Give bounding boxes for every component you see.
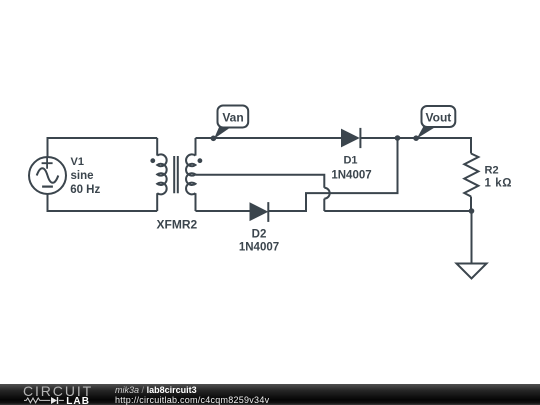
junction node Vout wire dot bbox=[395, 135, 401, 141]
junction node R2 bottom dot bbox=[469, 208, 475, 214]
wire hop over D2 output bbox=[324, 188, 329, 199]
center tap wire with hop bbox=[196, 175, 325, 188]
footer text url bbox=[115, 395, 269, 405]
label V1 name/value bbox=[70, 156, 100, 196]
node flag Vout bbox=[417, 106, 456, 139]
wire D1 cathode to R2 top corner bbox=[360, 138, 471, 154]
CircuitLab logo bbox=[0, 384, 110, 405]
svg-text:XFMR2: XFMR2 bbox=[157, 218, 198, 232]
wire D2 cathode to Vout node bbox=[268, 138, 397, 211]
svg-text:1 kΩ: 1 kΩ bbox=[485, 178, 513, 190]
wire top-left (V1 + to primary) bbox=[48, 138, 158, 157]
svg-text:1N4007: 1N4007 bbox=[239, 242, 279, 254]
diode D1 bbox=[341, 128, 360, 148]
svg-text:D2: D2 bbox=[252, 228, 267, 240]
footer text author/title bbox=[115, 385, 197, 395]
resistor R2 bbox=[464, 154, 478, 197]
svg-text:D1: D1 bbox=[343, 154, 357, 166]
wire secondary top to D1 anode bbox=[196, 137, 342, 139]
svg-text:R2: R2 bbox=[485, 164, 499, 176]
label D2 name/value bbox=[239, 228, 279, 253]
diode D2 bbox=[250, 202, 269, 222]
svg-text:V1: V1 bbox=[71, 156, 84, 168]
wire bottom-left (V1 - to primary) bbox=[48, 194, 158, 211]
svg-text:LAB: LAB bbox=[66, 396, 90, 405]
node flag Van bbox=[214, 106, 248, 139]
footer watermark bar bbox=[0, 384, 540, 405]
wire R2 bottom bbox=[470, 197, 472, 212]
svg-text:1N4007: 1N4007 bbox=[331, 170, 371, 182]
svg-text:sine: sine bbox=[71, 170, 94, 182]
bottom wire (center tap to R2 bottom) bbox=[324, 210, 471, 212]
transformer XFMR2 bbox=[150, 138, 202, 211]
voltage source V1 bbox=[29, 157, 66, 194]
svg-text:Van: Van bbox=[222, 111, 243, 125]
label R2 name/value bbox=[485, 164, 513, 189]
junction node Vout flag dot bbox=[413, 135, 419, 141]
svg-text:60 Hz: 60 Hz bbox=[70, 184, 100, 196]
ground wire bbox=[471, 211, 473, 264]
junction node Van dot bbox=[211, 136, 217, 142]
wire secondary bottom to D2 anode bbox=[196, 210, 250, 212]
ground bbox=[457, 264, 487, 279]
label D1 name/value bbox=[331, 154, 371, 181]
svg-text:Vout: Vout bbox=[426, 111, 452, 125]
